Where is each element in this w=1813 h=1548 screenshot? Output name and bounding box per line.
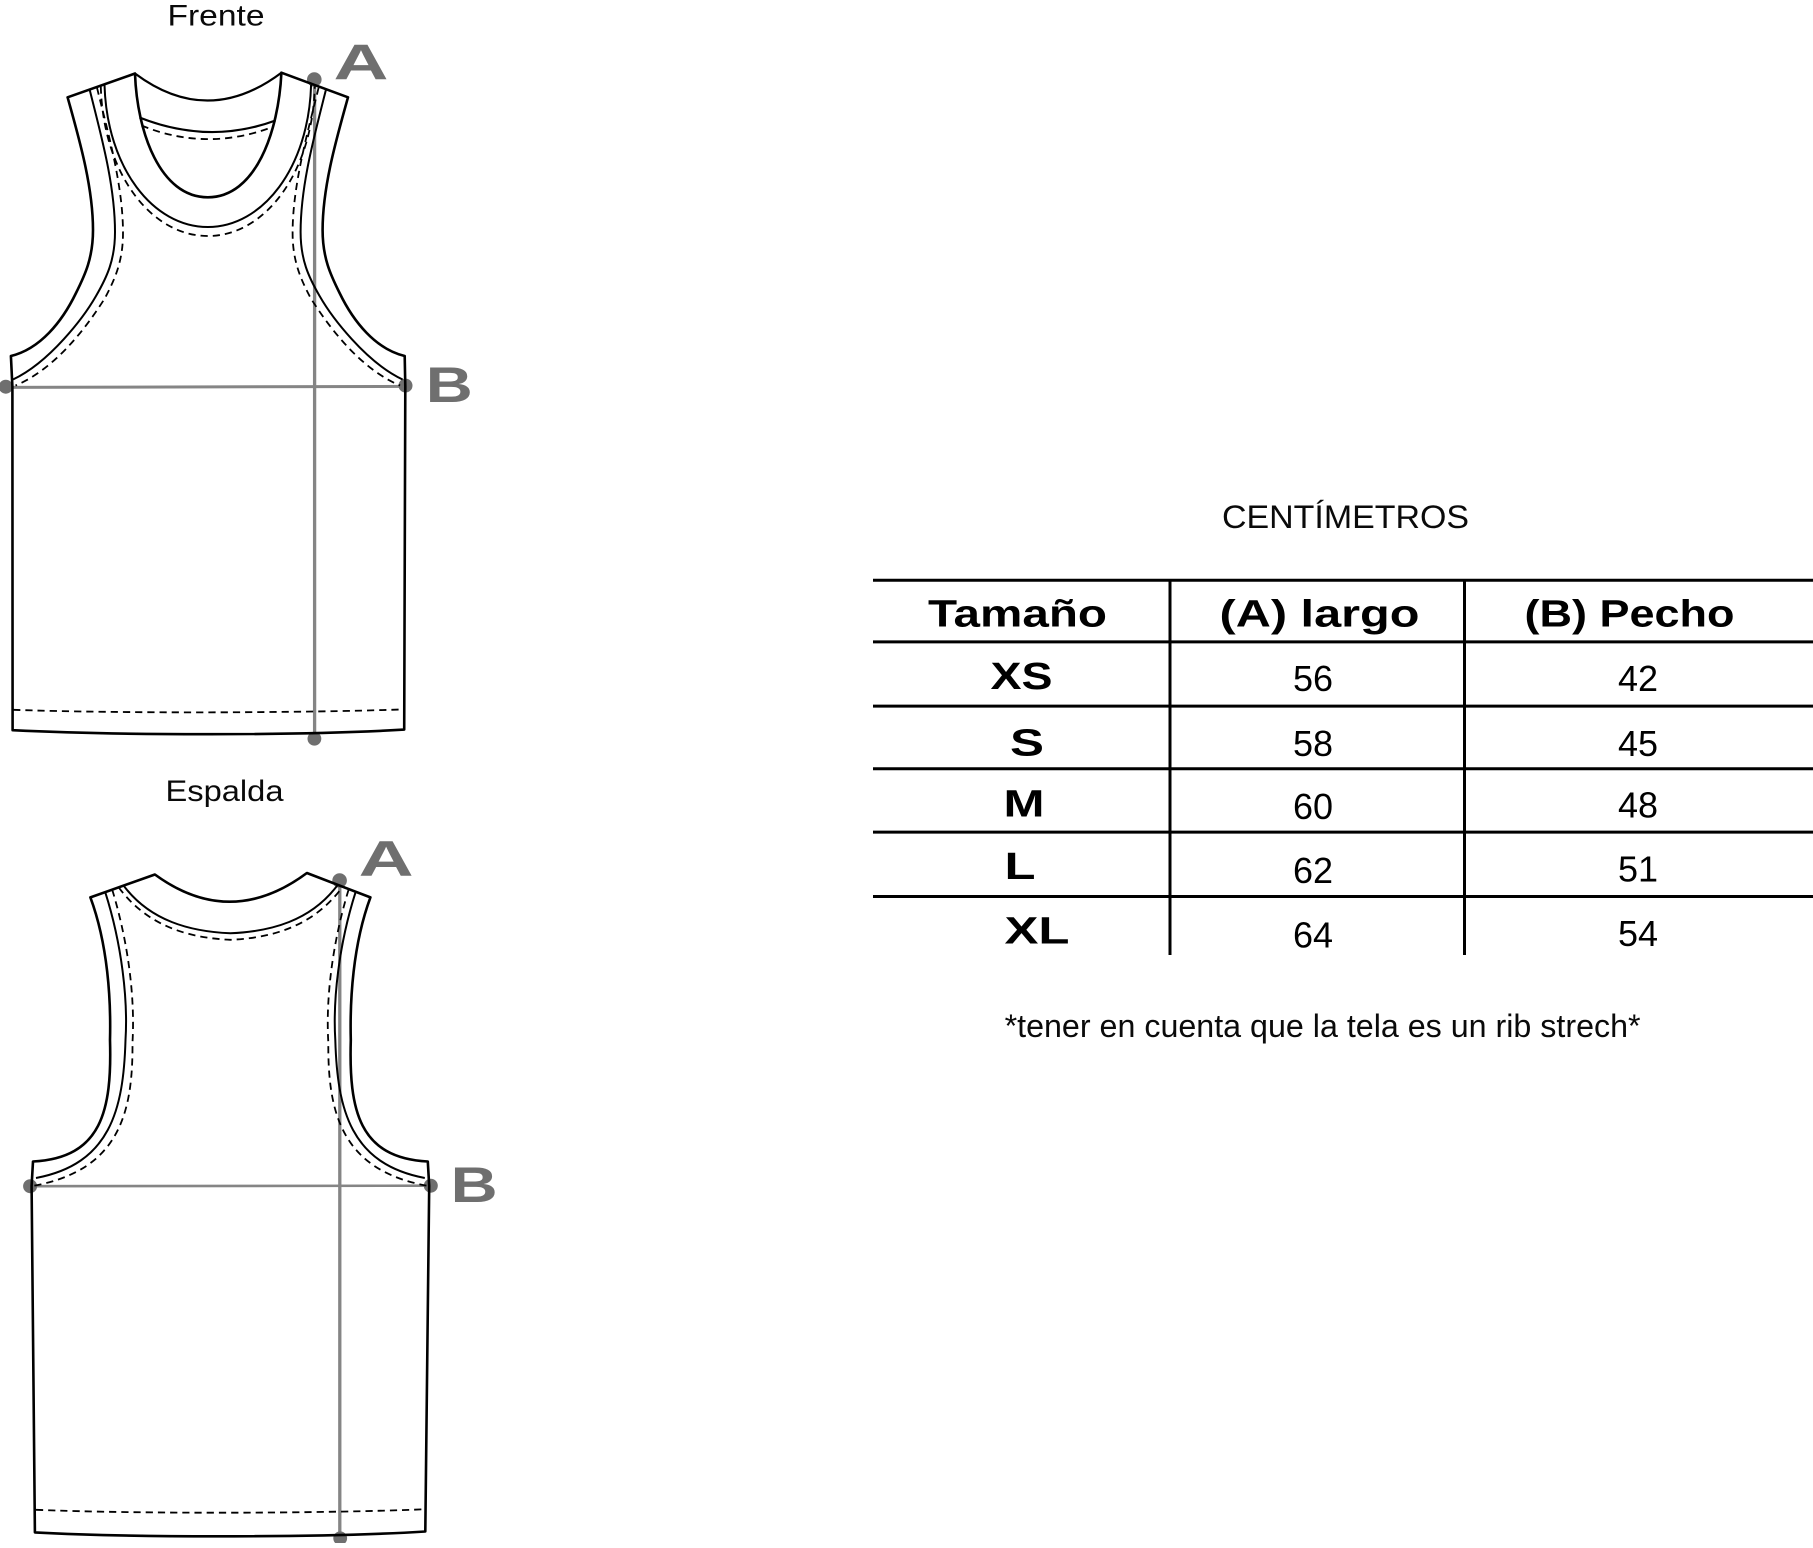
svg-text:XL: XL	[1005, 911, 1070, 953]
svg-text:*tener en cuenta que la tela e: *tener en cuenta que la tela es un rib s…	[1005, 1008, 1641, 1044]
svg-text:64: 64	[1293, 915, 1333, 956]
measure line A (back)	[338, 882, 341, 1538]
back left armhole dashed stitch	[34, 890, 134, 1186]
back right armhole binding	[335, 892, 425, 1178]
front tank outline	[11, 73, 405, 735]
svg-text:48: 48	[1618, 785, 1658, 826]
svg-text:Frente: Frente	[168, 0, 265, 32]
svg-text:42: 42	[1618, 658, 1658, 699]
svg-text:B: B	[451, 1157, 498, 1213]
front left armhole dashed stitch	[16, 88, 124, 386]
svg-text:B: B	[426, 357, 473, 413]
svg-text:58: 58	[1293, 723, 1333, 764]
svg-text:S: S	[1010, 723, 1044, 765]
front back-neck curve seen through opening	[135, 73, 281, 101]
front neck band dashed stitch	[101, 86, 315, 236]
front back-collar dashed stitch	[142, 126, 273, 140]
front neck band inner edge	[105, 85, 312, 227]
back tank outline	[32, 873, 430, 1536]
measure line B (back)	[30, 1184, 431, 1187]
table line below header	[873, 640, 1813, 643]
table column separator 1	[1169, 580, 1172, 955]
back hem dashed stitch	[36, 1509, 424, 1512]
svg-text:45: 45	[1618, 723, 1658, 764]
front left armhole binding	[13, 90, 115, 379]
dot A top (back)	[332, 873, 347, 888]
svg-text:M: M	[1004, 783, 1045, 825]
svg-text:60: 60	[1293, 786, 1333, 827]
table column separator 2	[1463, 580, 1466, 955]
table line below XS	[873, 705, 1813, 708]
svg-text:A: A	[359, 831, 414, 887]
svg-text:51: 51	[1618, 849, 1658, 890]
table line below M	[873, 831, 1813, 834]
front hem dashed stitch	[13, 709, 403, 712]
svg-text:Tamaño: Tamaño	[928, 593, 1107, 635]
svg-text:62: 62	[1293, 850, 1333, 891]
dot B right (front)	[399, 379, 413, 393]
svg-text:L: L	[1005, 846, 1036, 888]
svg-text:(A) largo: (A) largo	[1220, 593, 1420, 635]
front back-collar lower edge	[140, 118, 276, 133]
dot A top (front)	[307, 72, 322, 87]
back left armhole binding	[36, 892, 126, 1178]
dot B right (back)	[424, 1179, 438, 1193]
back neck dashed stitch	[119, 887, 342, 939]
measure line A (front)	[313, 80, 316, 738]
svg-text:A: A	[334, 35, 389, 91]
svg-text:CENTÍMETROS: CENTÍMETROS	[1222, 499, 1469, 535]
svg-text:54: 54	[1618, 913, 1658, 954]
dot B left (back)	[23, 1179, 37, 1193]
dot B left (front)	[0, 380, 13, 394]
back right armhole dashed stitch	[328, 890, 428, 1186]
dot A bottom (back)	[333, 1531, 347, 1545]
table top border	[873, 579, 1813, 582]
front right armhole binding	[301, 90, 403, 379]
svg-text:56: 56	[1293, 658, 1333, 699]
svg-text:(B) Pecho: (B) Pecho	[1525, 593, 1735, 635]
front right armhole dashed stitch	[293, 88, 401, 386]
table line below L	[873, 895, 1813, 898]
table line below S	[873, 767, 1813, 770]
svg-text:Espalda: Espalda	[166, 775, 284, 808]
dot A bottom (front)	[308, 732, 322, 746]
svg-text:XS: XS	[991, 656, 1053, 698]
back neck binding inner edge	[123, 885, 337, 933]
measure line B (front)	[6, 386, 406, 387]
